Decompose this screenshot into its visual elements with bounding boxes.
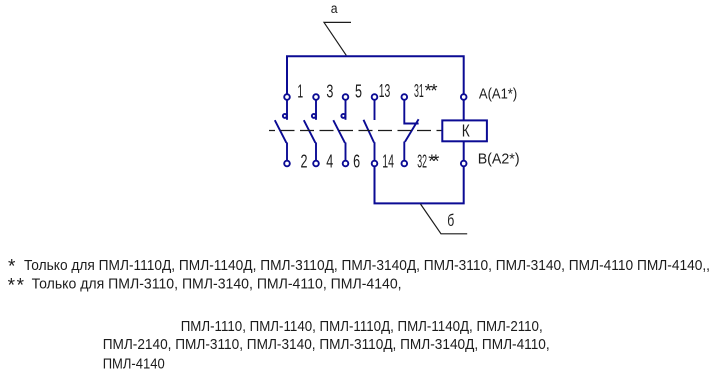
- svg-text:**: **: [425, 80, 438, 101]
- svg-text:1: 1: [297, 81, 303, 102]
- arc hook: [283, 114, 287, 118]
- terminal 5 circle: [343, 94, 349, 100]
- svg-text:32: 32: [417, 150, 427, 171]
- fixed contact stem: [286, 100, 288, 120]
- svg-text:* *: * *: [8, 276, 25, 297]
- lower stem: [374, 142, 376, 161]
- contact pole 13-14 (aux NO): [364, 94, 378, 166]
- svg-text:б: б: [447, 211, 454, 230]
- terminal 31 circle: [402, 94, 408, 100]
- svg-text:4: 4: [326, 150, 333, 171]
- terminal 1 circle: [284, 94, 290, 100]
- wire: top bus from contact 1 to coil terminal A: [287, 56, 464, 94]
- terminal 14 circle: [372, 161, 378, 167]
- arc hook: [341, 114, 345, 118]
- svg-text:13: 13: [379, 80, 391, 101]
- svg-text:К: К: [462, 121, 470, 141]
- svg-text:*: *: [8, 257, 16, 278]
- lower stem: [315, 143, 317, 161]
- svg-text:5: 5: [355, 81, 362, 102]
- moving blade: [275, 120, 287, 143]
- lower stem: [286, 143, 288, 161]
- fixed contact stem: [315, 100, 317, 120]
- svg-text:14: 14: [382, 150, 394, 171]
- svg-text:31: 31: [414, 80, 424, 101]
- contact pole 5-6 (main NO): [333, 94, 348, 166]
- fixed contact stem with right bar: [404, 100, 418, 124]
- fixed contact stem: [374, 100, 376, 120]
- terminal A circle: [461, 94, 467, 100]
- svg-text:3: 3: [326, 81, 333, 102]
- leader line for node b: [421, 204, 468, 234]
- terminal B circle: [461, 161, 467, 167]
- terminal 2 circle: [284, 161, 290, 167]
- terminal 13 circle: [372, 94, 378, 100]
- wire: coil to terminal B: [463, 141, 465, 160]
- svg-text:ПМЛ-4140: ПМЛ-4140: [103, 355, 165, 372]
- svg-text:6: 6: [353, 150, 360, 171]
- lower stem: [403, 142, 405, 161]
- moving blade: [304, 120, 316, 143]
- svg-text:**: **: [428, 150, 439, 171]
- wire: terminal A to coil: [463, 100, 465, 120]
- mechanical linkage dashed line: [269, 130, 442, 132]
- leader line for node a: [324, 22, 351, 55]
- lower stem: [345, 143, 347, 161]
- svg-text:2: 2: [301, 150, 308, 171]
- arc hook: [312, 114, 316, 118]
- moving blade: [333, 120, 345, 143]
- svg-text:А(А1*): А(А1*): [479, 85, 517, 102]
- svg-text:ПМЛ-2140, ПМЛ-3110, ПМЛ-3140,: ПМЛ-2140, ПМЛ-3110, ПМЛ-3140, ПМЛ-3110Д,…: [103, 336, 550, 353]
- wire: bottom bus from terminal 14 to terminal B: [375, 166, 464, 203]
- moving blade: [405, 119, 419, 142]
- coil K box: [442, 120, 487, 141]
- terminal 6 circle: [343, 161, 349, 167]
- svg-text:ПМЛ-1110, ПМЛ-1140, ПМЛ-1110Д,: ПМЛ-1110, ПМЛ-1140, ПМЛ-1110Д, ПМЛ-1140Д…: [181, 318, 543, 335]
- contact pole 1-2 (main NO): [275, 94, 290, 166]
- terminal 4 circle: [313, 161, 319, 167]
- contact pole 3-4 (main NO): [304, 94, 319, 166]
- terminal 3 circle: [313, 94, 319, 100]
- fixed contact stem: [345, 100, 347, 120]
- contact pole 31-32 (aux NC): [402, 94, 419, 166]
- svg-text:Только для ПМЛ-1110Д, ПМЛ-1140: Только для ПМЛ-1110Д, ПМЛ-1140Д, ПМЛ-311…: [24, 257, 710, 274]
- terminal 32 circle: [402, 161, 408, 167]
- svg-text:В(А2*): В(А2*): [478, 150, 520, 167]
- moving blade: [364, 120, 375, 143]
- svg-text:а: а: [331, 1, 338, 16]
- svg-text:Только для ПМЛ-3110, ПМЛ-3140,: Только для ПМЛ-3110, ПМЛ-3140, ПМЛ-4110,…: [32, 276, 402, 293]
